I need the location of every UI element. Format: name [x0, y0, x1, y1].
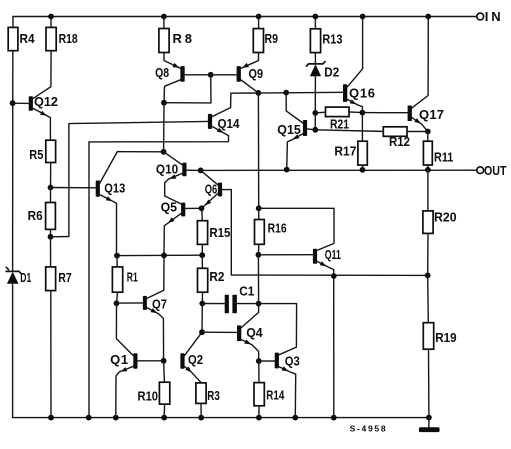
- wire R17 bottom to OUT line: [362, 165, 364, 170]
- label Q2: [188, 352, 203, 367]
- transistor Q4: [237, 304, 259, 362]
- wire R16 top to Q11 collector: [259, 208, 334, 250]
- wire node to R10: [163, 361, 166, 382]
- label D1: [20, 270, 31, 285]
- zener diode D1: [6, 267, 21, 284]
- label Q12: [34, 94, 58, 109]
- label R2: [209, 269, 224, 284]
- svg-text:S-4958: S-4958: [350, 424, 386, 434]
- label R18: [59, 31, 78, 46]
- node Q15 collector junction on Q16 base wire: [283, 90, 289, 96]
- wire node to R17: [361, 113, 363, 142]
- svg-text:R14: R14: [266, 388, 285, 403]
- node Q8 emitter junction: [161, 100, 167, 106]
- wire C1 node down to Q2 collector node: [201, 304, 203, 333]
- transistor Q5: [164, 203, 202, 256]
- wire Q9 emitter node down left column: [257, 93, 259, 208]
- svg-text:Q11: Q11: [325, 247, 341, 262]
- svg-text:R17: R17: [334, 144, 356, 159]
- label R14: [266, 388, 285, 403]
- wire rail to R13: [314, 17, 316, 29]
- label Q11: [325, 247, 341, 262]
- node Q11 emitter / divider junction: [331, 273, 337, 279]
- node Q8-Q9 base junction: [208, 72, 214, 78]
- wire rail to R18: [50, 17, 52, 28]
- svg-text:R7: R7: [58, 270, 71, 285]
- transistor Q15: [286, 93, 315, 170]
- svg-text:R1: R1: [127, 270, 138, 285]
- node C1 left junction: [199, 301, 205, 307]
- label R4: [20, 31, 36, 46]
- resistor R11: [423, 141, 432, 165]
- label D2: [324, 65, 339, 80]
- wire R20 bottom to divider node: [427, 233, 429, 275]
- label R19: [435, 330, 456, 345]
- transistor Q3: [259, 304, 297, 418]
- node R16 bottom / Q11 base junction: [256, 252, 262, 258]
- svg-text:Q3: Q3: [285, 354, 300, 369]
- wire divider node to R19: [427, 275, 430, 322]
- wire D2 anode down to R21 node: [314, 76, 316, 113]
- transistor Q14: [89, 93, 231, 417]
- node R17 at OUT line: [360, 167, 366, 173]
- wire Q14 base net: junction right, up and across to Q14 base: [51, 121, 208, 236]
- wire R19 bottom to ground: [428, 349, 430, 417]
- resistor R3: [196, 383, 206, 404]
- svg-text:R12: R12: [389, 134, 410, 149]
- wire R3 to ground rail: [200, 403, 202, 417]
- svg-text:R18: R18: [59, 31, 78, 46]
- node junction top rail above R13: [313, 14, 319, 20]
- node C1 right / Q4-Q3 collector junction: [256, 301, 262, 307]
- transistor Q2: [180, 332, 202, 383]
- wire rail to R8: [163, 17, 165, 29]
- wire rail corner down to R4: [12, 17, 14, 28]
- svg-text:Q9: Q9: [249, 66, 264, 81]
- resistor R1: [112, 267, 122, 292]
- node R7 at ground rail: [48, 415, 54, 421]
- wire R1 bottom to node: [117, 292, 118, 303]
- label Q16: [349, 86, 375, 101]
- svg-text:R16: R16: [268, 221, 287, 236]
- terminal IN: [477, 13, 484, 20]
- wire R4 bottom down to D1: [12, 51, 14, 272]
- label R6: [28, 208, 43, 223]
- svg-text:Q16: Q16: [349, 86, 375, 101]
- wire Q13 emitter / R1 / Q5 emitter link: [117, 254, 202, 256]
- svg-text:OUT: OUT: [484, 163, 507, 178]
- node junction top rail above R8: [161, 14, 167, 20]
- transistor Q17: [408, 17, 429, 132]
- transistor Q1: [116, 303, 164, 417]
- node Q1 emitter at ground rail: [113, 415, 119, 421]
- transistor Q6: [201, 170, 428, 275]
- node Q15 emitter at OUT line: [284, 167, 290, 173]
- label R1: [127, 270, 138, 285]
- wire node to R14: [258, 361, 260, 383]
- svg-text:IN: IN: [485, 9, 501, 24]
- node Q9 emitter junction: [256, 90, 262, 96]
- label Q4: [246, 325, 263, 340]
- svg-text:R4: R4: [20, 31, 36, 46]
- wire node to R2: [201, 255, 203, 268]
- node R5-R6 junction (Q13 base net): [48, 185, 54, 191]
- svg-text:Q12: Q12: [34, 94, 58, 109]
- node Q11 emitter line at ground rail: [331, 415, 337, 421]
- node Q5 base / Q6 emitter / R15 junction: [199, 205, 205, 211]
- node R1 bottom / Q1 collector / Q7 base junction: [114, 300, 120, 306]
- svg-text:R10: R10: [138, 389, 159, 404]
- label Q3: [285, 354, 300, 369]
- label R12: [389, 134, 410, 149]
- wire node to R11: [427, 132, 429, 142]
- resistor R6: [46, 203, 56, 230]
- wire rail to R9: [258, 17, 260, 29]
- node R14 at ground rail: [256, 415, 262, 421]
- label R20: [434, 210, 457, 225]
- resistor R5: [46, 140, 56, 162]
- node Q5 emitter junction: [161, 253, 167, 259]
- wire R16 bottom to Q11 base node: [257, 244, 259, 255]
- node R3 at ground rail: [198, 415, 204, 421]
- node R6-R7 junction (Q14 base net): [48, 234, 54, 240]
- resistor R18: [46, 27, 56, 50]
- resistor R17: [358, 141, 367, 165]
- resistor R7: [46, 267, 56, 291]
- ground: [419, 418, 440, 433]
- node Q10 base - OUT net junction: [198, 168, 204, 174]
- transistor Q11: [258, 249, 333, 418]
- svg-text:R5: R5: [29, 147, 43, 162]
- capacitor C1: [202, 295, 258, 313]
- transistor Q16: [343, 17, 363, 113]
- node Q15 base / R12 junction: [312, 127, 318, 133]
- label R17: [334, 144, 356, 159]
- label Q13: [104, 181, 125, 196]
- node junction top rail Q17 collector: [425, 14, 431, 20]
- svg-text:Q17: Q17: [419, 107, 444, 122]
- wire R6 bottom to node: [50, 229, 52, 236]
- node Q4 emitter / Q3 base / R14 junction: [256, 358, 262, 364]
- resistor R12: [315, 127, 428, 137]
- label C1: [239, 284, 254, 299]
- svg-text:Q4: Q4: [246, 325, 263, 340]
- svg-text:R6: R6: [28, 208, 43, 223]
- wire bottom ground rail: [13, 417, 429, 419]
- svg-text:C1: C1: [239, 284, 254, 299]
- node R10 at ground rail: [161, 415, 167, 421]
- wire OUT net long horizontal: [201, 169, 477, 171]
- label Q7: [152, 296, 167, 311]
- label Q14: [218, 116, 241, 131]
- node Q12 base junction on left column: [10, 100, 16, 106]
- node R15-R2 junction: [199, 252, 205, 258]
- label R10: [138, 389, 159, 404]
- svg-text:Q13: Q13: [104, 181, 125, 196]
- node junction top rail above R18: [48, 14, 54, 20]
- label Q9: [249, 66, 264, 81]
- label R9: [265, 31, 279, 46]
- wire R13 bottom to D2: [314, 53, 316, 64]
- transistor Q10: [164, 152, 201, 204]
- label Q15: [277, 122, 301, 137]
- wire top supply rail (IN net): [13, 16, 477, 18]
- label R3: [207, 388, 220, 403]
- svg-text:R11: R11: [434, 150, 453, 165]
- wire R2 bottom to C1 node: [201, 292, 203, 303]
- resistor R10: [159, 382, 169, 404]
- svg-text:R3: R3: [207, 388, 220, 403]
- label R21: [330, 116, 349, 131]
- resistor R16: [255, 220, 265, 245]
- transistor Q7: [117, 290, 164, 361]
- svg-text:Q1: Q1: [110, 352, 128, 367]
- svg-text:R13: R13: [322, 32, 342, 47]
- resistor R8: [159, 29, 169, 53]
- resistor R2: [198, 268, 208, 292]
- svg-text:Q14: Q14: [218, 116, 241, 131]
- label R15: [209, 225, 230, 240]
- svg-text:Q8: Q8: [155, 65, 169, 80]
- label Q10: [156, 162, 178, 177]
- svg-text:Q5: Q5: [161, 200, 177, 215]
- wire R11 bottom to OUT line: [427, 165, 429, 170]
- svg-text:Q7: Q7: [152, 296, 167, 311]
- transistor Q8: [164, 53, 185, 103]
- label OUT: [484, 163, 507, 178]
- node R21 left junction: [312, 110, 318, 116]
- wire OUT node to R20: [427, 170, 429, 211]
- wire R5 bottom to node: [50, 163, 52, 188]
- label Q8: [155, 65, 169, 80]
- svg-text:Q6: Q6: [205, 181, 218, 196]
- label R11: [434, 150, 453, 165]
- wire node to R7: [50, 237, 52, 267]
- wire Q9 emitter to Q16 base: [231, 91, 343, 94]
- svg-text:R15: R15: [209, 225, 230, 240]
- node R20-R19 divider junction: [425, 273, 431, 279]
- node ground rail end junction: [426, 415, 432, 421]
- label Q1: [110, 352, 128, 367]
- node R11 at OUT line / R20 top: [425, 167, 431, 173]
- wire base junction down and left to Q8 emitter node: [164, 75, 211, 103]
- wire node down to Q15 base node: [314, 113, 316, 130]
- transistor Q12: [13, 51, 52, 141]
- svg-text:Q15: Q15: [277, 122, 301, 137]
- label R13: [322, 32, 342, 47]
- node junction top rail Q16 collector: [360, 14, 366, 20]
- label IN: [485, 9, 501, 24]
- node Q14 emitter net at ground rail: [86, 415, 92, 421]
- label Q17: [419, 107, 444, 122]
- label Q6: [205, 181, 218, 196]
- resistor R19: [423, 323, 433, 350]
- svg-text:R9: R9: [265, 31, 279, 46]
- svg-text:Q2: Q2: [188, 352, 203, 367]
- label S-4958: [350, 424, 386, 434]
- wire node to R15: [201, 208, 204, 220]
- label R5: [29, 147, 43, 162]
- wire R10 to ground rail: [163, 404, 165, 418]
- svg-text:Q10: Q10: [156, 162, 178, 177]
- wire node to R6: [50, 188, 52, 203]
- resistor R21: [315, 107, 362, 117]
- resistor R15: [197, 221, 207, 245]
- wire Q8 emitter node down to Q10 node: [163, 103, 165, 152]
- wire node to Q4 base: [202, 331, 237, 333]
- svg-text:R21: R21: [330, 116, 349, 131]
- svg-text:D1: D1: [20, 270, 31, 285]
- wire R15 bottom to node: [201, 244, 203, 255]
- node Q10 collector junction: [161, 149, 167, 155]
- wire R14 to ground rail: [258, 406, 260, 418]
- svg-text:R2: R2: [209, 269, 224, 284]
- label R8: [173, 31, 193, 46]
- resistor R14: [254, 383, 264, 406]
- node R1 top junction: [114, 253, 120, 259]
- resistor R4: [8, 27, 18, 50]
- resistor R13: [310, 29, 320, 53]
- wire node to R1: [116, 256, 118, 267]
- label R7: [58, 270, 71, 285]
- label Q5: [161, 200, 177, 215]
- node junction top rail above R9: [256, 14, 262, 20]
- transistor Q13: [51, 152, 164, 256]
- wire Q5 emitter node down to Q7 collector: [163, 255, 165, 290]
- node Q3 emitter at ground rail: [292, 415, 298, 421]
- resistor R9: [253, 29, 263, 53]
- wire node to R16: [258, 208, 260, 219]
- wire node to Q17 base: [362, 112, 407, 114]
- label R16: [268, 221, 287, 236]
- wire R7 bottom to ground rail: [50, 291, 52, 418]
- node Q17 emitter / R12 / R11 junction: [425, 129, 431, 135]
- node Q16 emitter / R21 / Q17 base / R17 junction: [360, 110, 366, 116]
- node Q1-Q2 base / R10 junction: [161, 358, 167, 364]
- svg-text:R19: R19: [435, 330, 456, 345]
- zener diode D2: [307, 62, 326, 76]
- transistor Q9: [237, 53, 259, 93]
- svg-text:R20: R20: [434, 210, 457, 225]
- node R16 top junction: [256, 205, 262, 211]
- wire D1 anode down to ground rail: [12, 284, 14, 418]
- wire Q8-Q9 base link: [185, 74, 237, 76]
- wire node down to C1 right node: [257, 255, 259, 304]
- terminal OUT: [477, 167, 484, 174]
- node Q2 collector / Q4 base junction: [199, 329, 205, 335]
- resistor R20: [423, 211, 433, 234]
- svg-text:D2: D2: [324, 65, 339, 80]
